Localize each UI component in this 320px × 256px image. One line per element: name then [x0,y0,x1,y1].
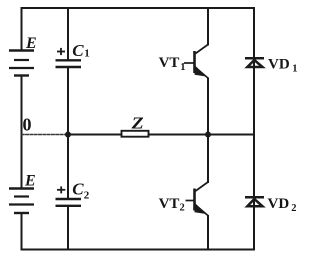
svg-text:E: E [25,35,37,52]
diode VD1 [245,58,264,67]
wire VT2 emitter to bottom rail [207,216,209,250]
capacitor C1 [56,60,82,67]
svg-text:C: C [72,41,84,60]
svg-text:1: 1 [292,64,297,75]
svg-text:E: E [24,173,36,190]
svg-text:VT: VT [159,55,180,71]
transistor VT1 [184,45,209,79]
wire mid rail to VT2 collector [207,135,209,183]
wire mid rail junction to load Z [68,134,122,136]
wire top rail [22,7,255,9]
wire mid rail dashed segment node 0 to junction [22,134,69,136]
svg-text:2: 2 [84,190,90,202]
wire capacitor column upper (top rail to C1) [67,8,69,60]
wire left column lower (battery E2 to bottom rail) [21,214,23,250]
node A junction dot (capacitor midpoint) [65,132,71,138]
wire VT1 emitter to mid rail [207,79,209,135]
wire capacitor column C2 to bottom rail [67,207,69,250]
diode VD2 [245,197,264,206]
svg-text:2: 2 [291,203,296,214]
svg-text:VD: VD [268,57,290,73]
svg-text:2: 2 [180,203,185,214]
wire diode column (top rail to bottom rail, through VD1 and VD2) [253,8,255,250]
battery E1 [9,51,34,76]
svg-text:0: 0 [23,115,32,135]
node B junction dot (transistor midpoint) [205,132,211,138]
transistor VT2 [186,182,209,216]
svg-text:1: 1 [180,62,185,73]
wire capacitor column C1 to mid rail [67,68,69,135]
svg-text:C: C [72,179,84,198]
wire left column upper (to battery E1) [21,8,23,50]
wire bottom rail [22,249,255,251]
wire mid rail load Z to transistor column and diode column [149,134,255,136]
svg-text:VT: VT [159,196,180,212]
wire capacitor column mid rail to C2 [67,135,69,199]
svg-text:VD: VD [268,196,290,212]
wire transistor column top rail to VT1 collector [207,8,209,45]
svg-text:Z: Z [131,114,144,132]
wire left column middle (battery E1 to battery E2) [21,76,23,188]
label + C1 [57,48,65,55]
capacitor C2 [56,199,82,206]
label + C2 [57,186,65,193]
svg-text:1: 1 [84,48,90,60]
load Z box [122,131,149,137]
battery E2 [9,189,34,214]
